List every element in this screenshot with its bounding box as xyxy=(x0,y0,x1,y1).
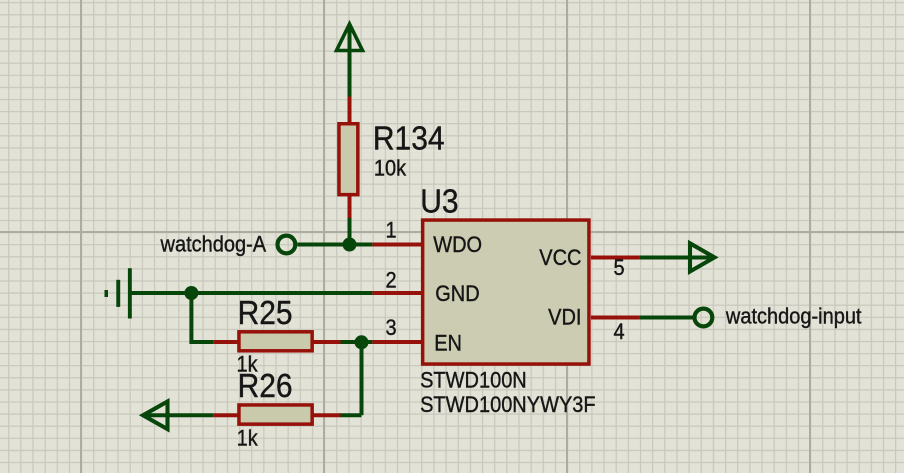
svg-text:10k: 10k xyxy=(374,157,407,181)
svg-text:STWD100N: STWD100N xyxy=(420,368,527,392)
svg-text:1k: 1k xyxy=(237,353,259,377)
svg-text:WDO: WDO xyxy=(433,233,482,257)
svg-text:5: 5 xyxy=(614,256,625,280)
svg-text:U3: U3 xyxy=(420,182,458,220)
svg-text:1: 1 xyxy=(385,219,396,243)
svg-text:R134: R134 xyxy=(373,119,445,157)
svg-text:VCC: VCC xyxy=(539,246,581,270)
svg-text:STWD100NYWY3F: STWD100NYWY3F xyxy=(420,393,596,417)
svg-text:1k: 1k xyxy=(237,427,259,451)
svg-text:VDI: VDI xyxy=(548,306,581,330)
svg-text:GND: GND xyxy=(435,282,479,306)
svg-text:watchdog-A: watchdog-A xyxy=(160,232,267,256)
svg-text:4: 4 xyxy=(614,320,625,344)
svg-text:watchdog-input: watchdog-input xyxy=(725,305,862,329)
svg-text:EN: EN xyxy=(434,332,462,356)
svg-text:R25: R25 xyxy=(238,294,293,332)
svg-text:2: 2 xyxy=(385,269,396,293)
svg-text:3: 3 xyxy=(385,316,396,340)
